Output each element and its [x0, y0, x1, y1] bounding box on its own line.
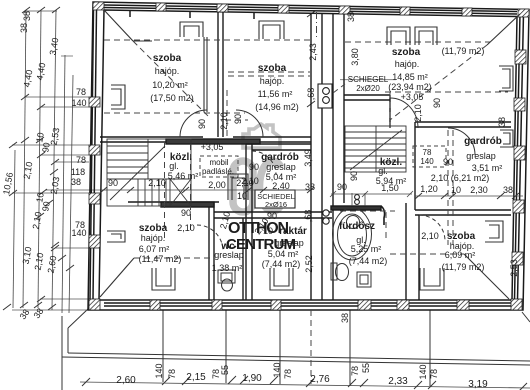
- svg-text:2,33: 2,33: [388, 376, 408, 387]
- svg-text:38: 38: [305, 182, 315, 192]
- svg-text:78: 78: [350, 366, 360, 376]
- svg-text:38: 38: [19, 23, 29, 33]
- svg-text:10: 10: [34, 132, 46, 144]
- svg-text:2,10: 2,10: [236, 178, 254, 188]
- svg-text:78: 78: [283, 369, 293, 379]
- svg-text:2,30: 2,30: [470, 185, 488, 195]
- svg-text:padláslé.: padláslé.: [202, 167, 234, 176]
- svg-text:90: 90: [249, 162, 259, 172]
- svg-text:38: 38: [497, 117, 507, 127]
- svg-text:2,40: 2,40: [272, 181, 290, 191]
- svg-text:gl.: gl.: [378, 166, 388, 176]
- svg-text:6,09 m²: 6,09 m²: [445, 250, 476, 260]
- svg-text:2,52: 2,52: [304, 255, 314, 273]
- svg-text:90: 90: [233, 114, 243, 124]
- svg-text:38: 38: [71, 177, 81, 187]
- svg-text:greslap: greslap: [266, 162, 296, 172]
- svg-text:2,53: 2,53: [509, 259, 519, 277]
- svg-text:szoba: szoba: [258, 63, 287, 74]
- svg-text:90: 90: [267, 211, 277, 221]
- svg-text:2,00: 2,00: [208, 180, 226, 190]
- svg-text:2xØ16: 2xØ16: [265, 200, 287, 209]
- svg-text:10: 10: [237, 191, 247, 201]
- svg-text:10: 10: [451, 185, 461, 195]
- svg-text:3,19: 3,19: [468, 379, 488, 390]
- svg-text:+3,05: +3,05: [401, 92, 424, 102]
- svg-text:90: 90: [432, 98, 442, 108]
- svg-text:1,90: 1,90: [242, 373, 262, 384]
- svg-text:,68: ,68: [306, 88, 316, 101]
- svg-text:78: 78: [76, 87, 86, 97]
- svg-text:greslap: greslap: [466, 151, 496, 161]
- svg-text:38: 38: [503, 185, 513, 195]
- svg-text:2,10: 2,10: [219, 112, 229, 130]
- svg-text:5,46 m²: 5,46 m²: [168, 171, 199, 181]
- svg-text:3,49: 3,49: [303, 149, 313, 167]
- svg-text:2,10: 2,10: [177, 223, 195, 233]
- svg-text:mobil: mobil: [209, 158, 228, 167]
- svg-text:+3,05: +3,05: [201, 142, 224, 152]
- svg-text:greslap: greslap: [274, 238, 304, 248]
- svg-text:3,51 m²: 3,51 m²: [472, 163, 503, 173]
- svg-text:90: 90: [108, 178, 118, 188]
- svg-text:gl.: gl.: [169, 161, 179, 171]
- svg-text:140: 140: [418, 364, 428, 379]
- svg-text:2xØ20: 2xØ20: [356, 84, 380, 93]
- svg-text:55: 55: [220, 365, 230, 375]
- svg-text:(14,96 m2): (14,96 m2): [255, 102, 299, 112]
- svg-text:3,80: 3,80: [350, 48, 360, 66]
- svg-text:2,76: 2,76: [310, 374, 330, 385]
- svg-text:140: 140: [154, 363, 164, 378]
- svg-text:5,25 m²: 5,25 m²: [351, 244, 382, 254]
- svg-text:6,07 m²: 6,07 m²: [139, 244, 170, 254]
- svg-text:szoba: szoba: [392, 47, 421, 58]
- svg-text:78: 78: [76, 155, 86, 165]
- svg-text:(11,79 m2): (11,79 m2): [442, 46, 485, 56]
- svg-text:,68: ,68: [303, 210, 313, 223]
- svg-text:(7,44 m2): (7,44 m2): [349, 256, 388, 266]
- svg-text:118: 118: [71, 167, 85, 177]
- svg-text:———————: ———————: [340, 75, 396, 84]
- svg-text:2,15: 2,15: [186, 372, 206, 383]
- svg-text:90: 90: [181, 208, 191, 218]
- svg-text:38: 38: [22, 11, 32, 21]
- svg-text:90: 90: [40, 142, 52, 154]
- svg-text:2,10: 2,10: [148, 178, 166, 188]
- svg-text:78: 78: [423, 148, 432, 157]
- svg-text:(11,79 m2): (11,79 m2): [442, 262, 485, 272]
- svg-text:fürdősz: fürdősz: [339, 221, 375, 232]
- svg-text:5,04 m²: 5,04 m²: [268, 249, 299, 259]
- svg-text:2,43: 2,43: [308, 43, 318, 61]
- svg-text:2,10: 2,10: [421, 231, 439, 241]
- svg-text:1,50: 1,50: [381, 183, 399, 193]
- svg-text:1,38 m²: 1,38 m²: [212, 263, 243, 273]
- svg-text:55: 55: [361, 363, 371, 373]
- svg-text:90: 90: [337, 182, 347, 192]
- svg-text:(7,44 m2): (7,44 m2): [262, 259, 301, 269]
- svg-text:szoba: szoba: [153, 53, 182, 64]
- svg-text:1,20: 1,20: [420, 184, 438, 194]
- svg-text:2,10: 2,10: [413, 104, 423, 122]
- svg-text:38: 38: [346, 12, 356, 22]
- svg-text:140: 140: [71, 228, 86, 238]
- svg-text:38: 38: [340, 313, 350, 323]
- svg-text:greslap: greslap: [214, 250, 244, 260]
- svg-text:14,85 m²: 14,85 m²: [392, 72, 428, 82]
- svg-text:hajóp.: hajóp.: [141, 233, 166, 243]
- svg-text:11,56 m²: 11,56 m²: [258, 89, 293, 99]
- svg-text:hajóp.: hajóp.: [395, 59, 420, 69]
- svg-text:2,60: 2,60: [116, 375, 136, 386]
- svg-text:140: 140: [71, 98, 86, 108]
- svg-text:gardrób: gardrób: [464, 136, 502, 147]
- svg-text:raktár: raktár: [279, 226, 307, 237]
- svg-text:hajóp.: hajóp.: [155, 66, 180, 76]
- svg-text:(17,50 m2): (17,50 m2): [150, 93, 194, 103]
- svg-text:2,10 (6,21 m2): 2,10 (6,21 m2): [431, 173, 490, 183]
- svg-text:140: 140: [420, 157, 434, 166]
- svg-text:78: 78: [167, 369, 177, 379]
- svg-text:90: 90: [40, 201, 52, 213]
- svg-text:90: 90: [349, 171, 359, 181]
- svg-text:78: 78: [429, 369, 439, 379]
- svg-text:90: 90: [443, 157, 453, 167]
- svg-text:140: 140: [272, 362, 282, 377]
- svg-text:(11,47 m2): (11,47 m2): [139, 254, 182, 264]
- svg-text:hajóp.: hajóp.: [260, 76, 285, 86]
- svg-text:10,20 m²: 10,20 m²: [152, 80, 188, 90]
- svg-text:90: 90: [197, 119, 207, 129]
